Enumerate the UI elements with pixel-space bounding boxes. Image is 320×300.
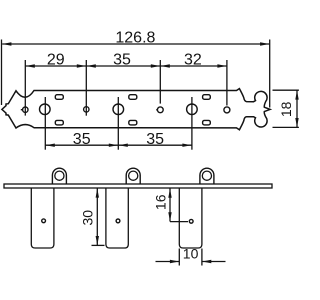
extension line right of 126.8 [269, 40, 271, 108]
arrow 16 top [168, 189, 171, 198]
eyelet E2 arch [126, 168, 140, 184]
screw hole S4 [224, 107, 230, 113]
svg-text:32: 32 [184, 51, 202, 68]
extension line S3 [159, 60, 161, 104]
svg-text:35: 35 [113, 51, 131, 68]
post P1 hole [42, 219, 46, 223]
tuner hole B2 [113, 104, 124, 115]
arrow 35 right [151, 64, 160, 67]
arrow 29 left [26, 64, 35, 67]
arrow 16 bottom [168, 212, 171, 221]
dimension line 30 [96, 188, 98, 245]
slot pair3 bottom [203, 120, 211, 125]
arrow 32 left [161, 64, 170, 67]
arrow bottom35a left [46, 144, 55, 147]
slot pair2 bottom [129, 120, 137, 125]
arrow 10 left [170, 260, 179, 263]
extension line 10 right [201, 249, 203, 266]
screw hole S2 [84, 107, 89, 112]
svg-text:29: 29 [47, 51, 65, 68]
arrow 29 right [77, 64, 86, 67]
dimension line 10 right segment [202, 261, 226, 263]
svg-text:35: 35 [73, 131, 91, 148]
post P2 [106, 188, 128, 248]
extension line S4 [226, 60, 228, 106]
eyelet E1 arch [52, 168, 66, 184]
arrow bottom35a right [109, 144, 118, 147]
screw hole S1 tick [21, 109, 23, 111]
dimension line 16 [169, 189, 171, 222]
arrow 35 left [87, 64, 96, 67]
extension line S1 [24, 60, 26, 116]
svg-text:16: 16 [153, 194, 169, 210]
svg-text:35: 35 [146, 131, 164, 148]
dimension line 126.8 [2, 43, 269, 45]
arrow 18 top [295, 90, 298, 99]
arrow 32 right [217, 64, 226, 67]
eyelet E1 ring [55, 171, 64, 180]
tuner hole B3 [187, 104, 198, 115]
slot pair2 top [129, 95, 137, 100]
extension line 18 top [273, 89, 299, 91]
dimension line 35-35 bottom [45, 144, 192, 146]
arrow bottom35b left [119, 144, 128, 147]
extension line S2 [85, 60, 87, 116]
slot pair1 top [55, 95, 63, 100]
screw hole S3 [157, 107, 163, 113]
slot pair3 top [203, 95, 211, 100]
screw hole S3 tick [156, 109, 157, 111]
arrow 18 bottom [295, 118, 298, 127]
dimension line 10 left segment [156, 261, 180, 263]
arrow 30 top [96, 188, 99, 197]
plate outline (top view) [2, 89, 270, 130]
dimension line 18 [296, 90, 298, 127]
eyelet E3 arch [200, 168, 214, 184]
post P3 [179, 188, 202, 248]
slot pair1 bottom [55, 120, 63, 125]
screw hole S1 [23, 107, 28, 112]
eyelet E3 ring [202, 171, 211, 180]
tuner hole B1 [40, 104, 51, 115]
arrow 126.8 left [2, 42, 11, 45]
post P2 hole [116, 219, 120, 223]
pointer line 16 to hole [170, 221, 188, 223]
extension line B1 [44, 97, 46, 150]
svg-text:126.8: 126.8 [115, 30, 155, 47]
dimension line 29-35-32 [25, 65, 227, 67]
arrow 30 bottom [96, 236, 99, 245]
extension line 18 bottom [273, 126, 299, 128]
post P3 hole [189, 219, 193, 223]
arrow 10 right [202, 260, 211, 263]
extension line B2 [117, 97, 119, 150]
front view bar [4, 184, 272, 188]
svg-text:18: 18 [278, 101, 294, 117]
arrow 126.8 right [260, 42, 269, 45]
extension line left of 126.8 [1, 40, 3, 106]
extension line 10 left [178, 249, 180, 266]
post P1 [31, 188, 54, 248]
svg-text:10: 10 [183, 246, 199, 262]
extension line B3 [191, 97, 193, 150]
extension tick 30 bottom [92, 244, 105, 246]
arrow bottom35b right [182, 144, 191, 147]
svg-text:30: 30 [79, 210, 95, 226]
eyelet E2 ring [129, 171, 138, 180]
